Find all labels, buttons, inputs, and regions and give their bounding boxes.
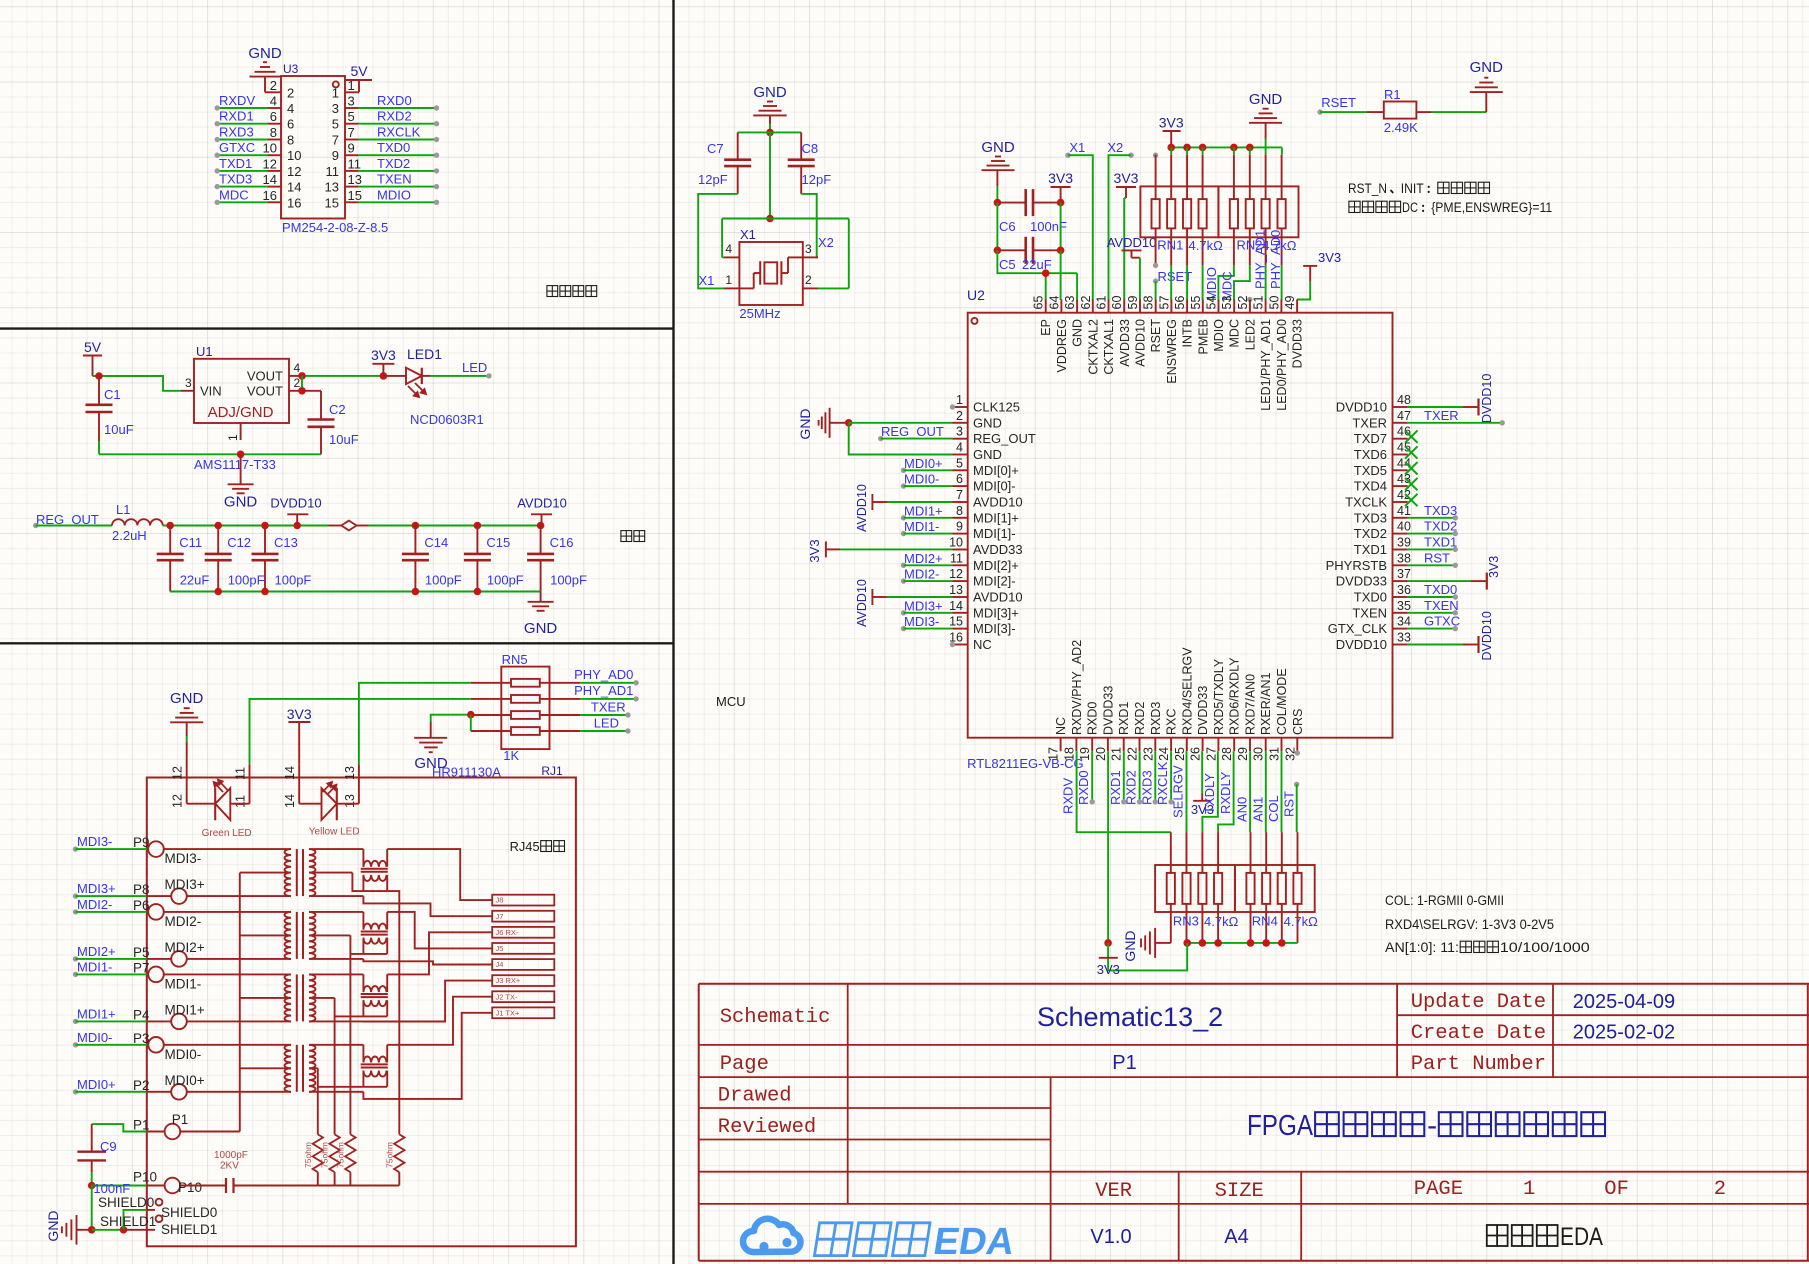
- U2 pin1 indicator circle: [972, 318, 978, 324]
- svg-text:MDI3+: MDI3+: [77, 881, 116, 896]
- svg-text:14: 14: [949, 599, 963, 613]
- resistor RN1 element 1: [1155, 155, 1157, 199]
- net label TXER wire pin47: [1408, 422, 1503, 424]
- resistor RN4 element 4: [1297, 832, 1299, 873]
- wire pin20 u-detour to rail: [1104, 939, 1112, 947]
- resistor RN1 element 4: [1202, 155, 1204, 199]
- svg-text:2: 2: [287, 85, 294, 100]
- transformer T4 secondary leads: [309, 1044, 363, 1046]
- connector U3 body: [281, 76, 345, 219]
- svg-text:3: 3: [956, 425, 963, 439]
- svg-text:2: 2: [1714, 1178, 1726, 1201]
- svg-text:4: 4: [287, 101, 294, 116]
- svg-text:54: 54: [1205, 296, 1219, 310]
- svg-text:14: 14: [263, 172, 277, 187]
- svg-text:9: 9: [956, 520, 963, 534]
- svg-text:GND: GND: [45, 1210, 61, 1241]
- svg-text:39: 39: [1397, 536, 1411, 550]
- svg-text:RXD1: RXD1: [1117, 702, 1131, 735]
- svg-text:14: 14: [287, 180, 301, 195]
- svg-text:RN1: RN1: [1157, 238, 1183, 253]
- svg-text:RXD2: RXD2: [377, 109, 412, 124]
- svg-text:Part Number: Part Number: [1411, 1053, 1546, 1076]
- choke T2 top winding: [362, 912, 364, 930]
- svg-text:DVDD10: DVDD10: [1336, 637, 1387, 652]
- svg-text:GND: GND: [1249, 91, 1283, 108]
- wire net RXD1 to U3 pin 6: [217, 123, 268, 125]
- U2 pin 62 CKTXAL2 (top): [1092, 300, 1094, 313]
- wire C5-C6 right to U2 pin64: [1060, 203, 1062, 251]
- svg-text:DVDD10: DVDD10: [1480, 611, 1494, 660]
- U2 pin 20 DVDD33 (bottom): [1107, 738, 1109, 752]
- ground GND below C16: [540, 592, 542, 602]
- inductor L1: [112, 519, 163, 525]
- svg-text:INTB: INTB: [1181, 319, 1195, 347]
- svg-text:4.7kΩ: 4.7kΩ: [1189, 238, 1224, 253]
- svg-text:RXD4\SELRGV: 1-3V3 0-2V5: RXD4\SELRGV: 1-3V3 0-2V5: [1385, 917, 1554, 932]
- svg-text:RJ45: RJ45: [510, 839, 540, 854]
- svg-text:TXD1: TXD1: [219, 156, 252, 171]
- svg-text:MDI2+: MDI2+: [165, 940, 205, 955]
- U3 pin 2 stub (left): [268, 91, 281, 93]
- svg-text:RXD2: RXD2: [1124, 770, 1139, 805]
- U2 pin 27 RXD5/TXDLY (bottom): [1217, 738, 1219, 752]
- svg-text:RXD3: RXD3: [1149, 702, 1163, 735]
- svg-text:RXD4/SELRGV: RXD4/SELRGV: [1180, 647, 1194, 735]
- svg-text:A4: A4: [1224, 1226, 1248, 1248]
- choke T4 top winding: [362, 1045, 364, 1063]
- svg-text:75ohm: 75ohm: [303, 1142, 313, 1168]
- title block inner lines: [1397, 1014, 1809, 1016]
- svg-text:1: 1: [332, 85, 339, 100]
- choke T1 top winding: [362, 849, 364, 867]
- svg-text:R1: R1: [1384, 87, 1401, 102]
- U2 pin 1 CLK125 (left): [953, 406, 968, 408]
- svg-text:TXEN: TXEN: [1352, 605, 1387, 620]
- svg-text:Drawed: Drawed: [718, 1085, 792, 1108]
- svg-text:MCU: MCU: [716, 694, 746, 709]
- U2 pin 65 EP (top): [1045, 300, 1047, 313]
- svg-text:MDI[1]+: MDI[1]+: [973, 510, 1019, 525]
- svg-text:28: 28: [1220, 747, 1234, 761]
- svg-text:RXD6/RXDLY: RXD6/RXDLY: [1228, 657, 1242, 735]
- svg-text:1: 1: [1523, 1178, 1535, 1201]
- svg-text:37: 37: [1397, 567, 1411, 581]
- U2 pin 10 AVDD33 (left): [953, 549, 968, 551]
- U2 pin 37 DVDD33 (right): [1393, 580, 1408, 582]
- svg-text:LED: LED: [594, 716, 619, 731]
- resistor RN3 element 2: [1186, 832, 1188, 873]
- svg-text:44: 44: [1397, 456, 1411, 470]
- svg-text:TXD3: TXD3: [219, 172, 252, 187]
- wire net RXD2 from U3 pin 5: [358, 123, 437, 125]
- wire VOUT pin2 to C2: [301, 376, 303, 391]
- choke T4 core: [361, 1063, 388, 1065]
- svg-text:X2: X2: [1107, 140, 1123, 155]
- svg-text:51: 51: [1252, 296, 1266, 310]
- svg-text:TXD0: TXD0: [1354, 590, 1387, 605]
- svg-text:14: 14: [283, 794, 297, 808]
- svg-text:3V3: 3V3: [1318, 250, 1341, 265]
- svg-text:5: 5: [956, 456, 963, 470]
- svg-text:MDI3-: MDI3-: [904, 614, 939, 629]
- U2 pin 21 RXD1 (bottom): [1123, 738, 1125, 752]
- svg-text:DVDD33: DVDD33: [1336, 574, 1387, 589]
- U3 pin 15 stub (right): [345, 201, 358, 203]
- svg-text:TXD2: TXD2: [1424, 519, 1457, 534]
- U3 pin 5 stub (right): [345, 123, 358, 125]
- svg-text:J5: J5: [496, 944, 504, 953]
- wire P10 node to GND: [91, 1186, 93, 1230]
- U1 pin 2 VOUT stub: [289, 390, 302, 392]
- wires RN1 to pins 57,56,55: [1170, 265, 1172, 300]
- center tap T1 jog to choke1: [352, 873, 387, 892]
- svg-text:13: 13: [348, 172, 362, 187]
- svg-text:12: 12: [171, 794, 185, 808]
- svg-text:7: 7: [956, 488, 963, 502]
- net label MDI3- wire to RJ1 pin P9: [73, 846, 78, 851]
- wire shield nets: [92, 1229, 124, 1231]
- svg-text:DVDD33: DVDD33: [1291, 319, 1305, 368]
- svg-text:GND: GND: [973, 415, 1002, 430]
- svg-text:75ohm: 75ohm: [384, 1142, 394, 1168]
- svg-text:12: 12: [287, 164, 301, 179]
- net label RXDLY wire pin28 to RN3 res4: [1218, 751, 1234, 832]
- svg-text:DC: DC: [1402, 200, 1418, 215]
- svg-text:Reviewed: Reviewed: [718, 1116, 816, 1139]
- resistor RN2 element 2: [1249, 155, 1251, 199]
- svg-text:29: 29: [1236, 747, 1250, 761]
- power flag DVDD10 at pin33: [1408, 644, 1463, 646]
- svg-text:MDI[2]+: MDI[2]+: [973, 558, 1019, 573]
- svg-text:AVDD10: AVDD10: [855, 484, 869, 532]
- transformer T1 core: [296, 849, 298, 896]
- svg-text:RSET: RSET: [1149, 319, 1163, 353]
- U2 pin 31 COL/MODE (bottom): [1281, 738, 1283, 752]
- svg-text:X1: X1: [740, 227, 756, 242]
- svg-text:C5: C5: [999, 257, 1016, 272]
- svg-text:27: 27: [1204, 747, 1218, 761]
- svg-text:GND: GND: [1122, 930, 1138, 961]
- resistor RN5 element 2: [471, 698, 511, 700]
- power flag AVDD10: [541, 514, 543, 525]
- RN2 box: [1218, 186, 1298, 237]
- svg-text:RXD0: RXD0: [1076, 770, 1091, 805]
- svg-text:12pF: 12pF: [802, 172, 832, 187]
- svg-text:MDI2+: MDI2+: [904, 551, 943, 566]
- wire pin13 to RN5 res1: [359, 683, 471, 765]
- svg-text:C14: C14: [424, 535, 448, 550]
- svg-text:75ohm: 75ohm: [335, 1142, 345, 1168]
- wire T2 secondary top to J5: [387, 912, 492, 949]
- svg-text:52: 52: [1236, 296, 1250, 310]
- net label MDI1+ wire to RJ1 pin P4: [73, 1019, 78, 1024]
- resistor RN4 element 1: [1250, 832, 1252, 873]
- svg-text:10/100/1000: 10/100/1000: [1500, 940, 1590, 955]
- resistor RN5 element 1: [471, 682, 511, 684]
- svg-text:Schematic13_2: Schematic13_2: [1037, 1002, 1223, 1032]
- svg-text:11: 11: [234, 767, 248, 780]
- svg-text:J4: J4: [496, 960, 504, 969]
- svg-text:DVDD33: DVDD33: [1196, 686, 1210, 735]
- svg-text:INIT: INIT: [1401, 181, 1424, 196]
- U2 pin 64 VDDREG (top): [1060, 300, 1062, 313]
- svg-text:41: 41: [1397, 504, 1411, 518]
- svg-text:TXD1: TXD1: [1424, 534, 1457, 549]
- choke T2 bottom winding: [363, 938, 386, 944]
- U2 pin 60 AVDD33 (top): [1123, 300, 1125, 313]
- svg-text:OF: OF: [1604, 1178, 1629, 1201]
- resistor RN5 element 3: [471, 714, 511, 716]
- svg-text:RXC: RXC: [1165, 709, 1179, 735]
- svg-text:VDDREG: VDDREG: [1055, 319, 1069, 372]
- RN1 res1 dangling top (RSET): [1153, 153, 1158, 158]
- svg-text:53: 53: [1220, 296, 1234, 310]
- no-connect X at pin 43: [1405, 478, 1418, 490]
- svg-text:DVDD33: DVDD33: [1101, 686, 1115, 735]
- RJ1 pin 13 stub: [358, 764, 360, 777]
- terminal J2 TX-: [492, 991, 554, 1002]
- U3 pin 14 stub (left): [268, 186, 281, 188]
- net label MDI1- wire to RJ1 pin P7: [73, 972, 78, 977]
- capacitor C8: [800, 132, 802, 159]
- U2 pin 16 NC (left): [953, 644, 968, 646]
- svg-text:AN[1:0]: 11:: AN[1:0]: 11:: [1385, 940, 1459, 955]
- power flag GND at U3 pin2: [265, 91, 268, 93]
- wire net RXD3 to U3 pin 8: [217, 139, 268, 141]
- net label MDI2- wire to RJ1 pin P6: [73, 909, 78, 914]
- svg-text:25: 25: [1173, 747, 1187, 761]
- transformer T3 secondary leads: [309, 973, 363, 975]
- wire T3 secondary bottom to J3: [363, 981, 492, 1022]
- svg-text:RXD5/TXDLY: RXD5/TXDLY: [1212, 658, 1226, 735]
- logo JLC EDA cloud: [743, 1219, 800, 1252]
- svg-text:1: 1: [956, 393, 963, 407]
- resistor RN3 element 4: [1217, 832, 1219, 873]
- svg-text:EDA: EDA: [931, 1220, 1018, 1263]
- RJ1 SHIELD0 pin: [147, 1209, 155, 1211]
- svg-text:RXD3: RXD3: [1139, 770, 1154, 805]
- U3 pin1 indicator circle: [333, 81, 339, 87]
- svg-text:RXDV: RXDV: [1061, 778, 1076, 814]
- svg-text:C12: C12: [227, 535, 251, 550]
- resistor RN2 element 3: [1265, 155, 1267, 199]
- wire net MDC to U3 pin 16: [217, 201, 268, 203]
- svg-text:RXCLK: RXCLK: [377, 125, 421, 140]
- resistor RN3 element 3: [1201, 832, 1203, 873]
- svg-text:MDI3+: MDI3+: [165, 877, 205, 892]
- svg-text:C7: C7: [707, 141, 724, 156]
- U2 pin 32 CRS (bottom): [1296, 738, 1298, 752]
- svg-text:TXER: TXER: [591, 700, 626, 715]
- svg-text:GND: GND: [224, 493, 258, 510]
- svg-text:61: 61: [1095, 296, 1109, 310]
- svg-text:TXD0: TXD0: [1424, 582, 1457, 597]
- svg-text:VIN: VIN: [200, 384, 222, 399]
- net label RST wire: [1408, 564, 1456, 566]
- wire pin11 to RN5 res2: [250, 699, 471, 764]
- wire 3V3 rail above RN1/RN2: [1171, 146, 1282, 148]
- svg-text:3V3: 3V3: [1097, 962, 1120, 977]
- svg-text:NCD0603R1: NCD0603R1: [410, 412, 484, 427]
- svg-text:P6: P6: [133, 898, 150, 913]
- U2 pin 57 ENSWREG (top): [1170, 300, 1172, 313]
- LED yellow (RJ1 internal): [298, 778, 300, 804]
- svg-text:GND: GND: [1071, 319, 1085, 347]
- resistor R1: [1367, 111, 1384, 113]
- svg-text:PHYRSTB: PHYRSTB: [1326, 558, 1387, 573]
- svg-text:J1 TX+: J1 TX+: [496, 1008, 520, 1017]
- svg-text:MDI[3]-: MDI[3]-: [973, 621, 1016, 636]
- U3 pin 6 stub (left): [268, 123, 281, 125]
- svg-text:COL/MODE: COL/MODE: [1275, 668, 1289, 735]
- svg-text:AVDD10: AVDD10: [973, 590, 1023, 605]
- svg-text:3: 3: [185, 376, 192, 390]
- svg-text:C1: C1: [104, 387, 121, 402]
- svg-text:59: 59: [1126, 296, 1140, 310]
- svg-text:EP: EP: [1039, 319, 1053, 336]
- svg-text:3V3: 3V3: [807, 539, 822, 562]
- svg-text:PHY_AD0: PHY_AD0: [1268, 230, 1283, 289]
- svg-text:PM254-2-08-Z-8.5: PM254-2-08-Z-8.5: [282, 220, 388, 235]
- svg-text:TXER: TXER: [1352, 415, 1387, 430]
- svg-text:P7: P7: [133, 960, 150, 975]
- capacitor C13: [264, 526, 266, 554]
- U2 pin 61 CKTXAL1 (top): [1108, 300, 1110, 313]
- svg-text:RST: RST: [1424, 550, 1450, 565]
- U2 pin 41 TXD3 (right): [1393, 517, 1408, 519]
- svg-text:35: 35: [1397, 599, 1411, 613]
- svg-text:58: 58: [1142, 296, 1156, 310]
- capacitor C7: [737, 132, 739, 159]
- svg-text:3: 3: [348, 94, 355, 109]
- capacitor C2: [320, 391, 322, 420]
- svg-text:RST: RST: [1281, 791, 1296, 817]
- svg-text:RXD0: RXD0: [1086, 702, 1100, 735]
- U2 pin 59 AVDD10 (top): [1139, 300, 1141, 313]
- terminal J1 TX+: [492, 1007, 554, 1018]
- svg-text:C9: C9: [100, 1139, 117, 1154]
- svg-text:P10: P10: [178, 1180, 202, 1195]
- U2 pin 17 NC (bottom): [1060, 738, 1062, 752]
- svg-text:X1: X1: [699, 273, 715, 288]
- RJ1 pin P10 wire: [88, 1182, 96, 1190]
- svg-text:4: 4: [956, 441, 963, 455]
- svg-text:19: 19: [1078, 747, 1092, 761]
- MCU U2 body: [968, 313, 1393, 738]
- U2 pin 11 MDI[2]+ (left): [953, 564, 968, 566]
- U2 pin 8 MDI[1]+ (left): [953, 517, 968, 519]
- svg-text:33: 33: [1397, 631, 1411, 645]
- svg-text:CRS: CRS: [1291, 709, 1305, 735]
- wire net TXD1 to U3 pin 12: [217, 170, 268, 172]
- svg-text:15: 15: [949, 615, 963, 629]
- svg-text:RXD1: RXD1: [219, 109, 254, 124]
- svg-text:PMEB: PMEB: [1196, 319, 1210, 354]
- RJ1 pin P6 circle: [148, 904, 164, 920]
- svg-text:4: 4: [294, 361, 301, 375]
- svg-text:C2: C2: [329, 402, 346, 417]
- svg-text:100pF: 100pF: [228, 573, 265, 588]
- no-connect X at pin 44: [1405, 462, 1418, 474]
- wire MDC jog pin53: [1234, 265, 1250, 300]
- U2 pin 53 MDC (top): [1233, 300, 1235, 313]
- svg-text:15: 15: [348, 188, 362, 203]
- svg-text:P9: P9: [133, 835, 150, 850]
- svg-text:Schematic: Schematic: [720, 1006, 831, 1029]
- svg-text:2025-02-02: 2025-02-02: [1573, 1022, 1675, 1044]
- U3 pin 11 stub (right): [345, 170, 358, 172]
- svg-text:TXD4: TXD4: [1354, 479, 1387, 494]
- power flag 3V3 at pin26: [1201, 751, 1203, 793]
- U1 pin 4 VOUT stub: [289, 375, 302, 377]
- wire C8 to X1 pin3: [801, 194, 818, 258]
- svg-text:LED: LED: [462, 360, 487, 375]
- svg-text:26: 26: [1189, 747, 1203, 761]
- svg-text:MDI2-: MDI2-: [904, 567, 939, 582]
- wire crystal gnd rail: [738, 131, 802, 133]
- net label AN1 wire pin30: [1265, 751, 1267, 832]
- svg-text:AVDD10: AVDD10: [855, 579, 869, 627]
- svg-text:MDI0-: MDI0-: [165, 1047, 202, 1062]
- svg-text:100pF: 100pF: [487, 573, 524, 588]
- svg-text:3V3: 3V3: [287, 706, 312, 722]
- U2 pin 9 MDI[1]- (left): [953, 533, 968, 535]
- svg-text:FPGA: FPGA: [1247, 1110, 1313, 1142]
- net label RXD2 dangling wire: [1139, 751, 1141, 802]
- wire pin20 DVDD33 down to 3V3: [1107, 751, 1109, 943]
- U2 pin 30 RXER/AN1 (bottom): [1265, 738, 1267, 752]
- svg-text:4: 4: [725, 242, 732, 256]
- wire R1 to GND: [1431, 111, 1486, 113]
- net label MDI0- wire to RJ1 pin P3: [73, 1042, 78, 1047]
- svg-text:100nF: 100nF: [93, 1181, 130, 1196]
- svg-text:3V3: 3V3: [1487, 556, 1501, 578]
- svg-text:12: 12: [949, 567, 963, 581]
- wire net TXEN from U3 pin 13: [358, 186, 437, 188]
- net label X1 wire to pin 62: [1065, 153, 1070, 158]
- svg-text:12: 12: [171, 766, 185, 780]
- svg-text:AVDD10: AVDD10: [973, 495, 1023, 510]
- pin52 dangling: [1247, 297, 1252, 302]
- svg-text:1: 1: [725, 273, 732, 287]
- power flag 3V3 below pin20 wire: [1099, 957, 1118, 959]
- resistor RN4 element 3: [1281, 832, 1283, 873]
- no-connect X at pin 46: [1405, 430, 1418, 442]
- RJ1 pin P1 circle: [165, 1124, 181, 1140]
- wire net MDIO from U3 pin 15: [358, 201, 437, 203]
- resistor 75ohm at x=350.4: [345, 1134, 355, 1172]
- transformer T2 secondary leads: [309, 911, 363, 913]
- net label RST dangling wire to RN4 res4: [1294, 782, 1299, 787]
- svg-text:AN1: AN1: [1250, 797, 1265, 822]
- svg-text:24: 24: [1157, 747, 1171, 761]
- resistor RN1 element 3: [1186, 155, 1188, 199]
- svg-text:VOUT: VOUT: [247, 369, 283, 384]
- U2 pin 56 INTB (top): [1186, 300, 1188, 313]
- net RSET dangling wires: [1153, 263, 1158, 268]
- transformer T3 core: [296, 974, 298, 1021]
- U2 pin 5 MDI[0]+ (left): [953, 469, 968, 471]
- svg-text:2: 2: [956, 409, 963, 423]
- svg-text:10: 10: [949, 536, 963, 550]
- wire net TXD3 to U3 pin 14: [217, 186, 268, 188]
- svg-text:13: 13: [325, 180, 339, 195]
- svg-text:RSET: RSET: [1321, 95, 1356, 110]
- capacitor C9: [91, 1124, 93, 1152]
- transformer T1 primary coil: [285, 849, 291, 873]
- svg-text:U3: U3: [283, 62, 299, 76]
